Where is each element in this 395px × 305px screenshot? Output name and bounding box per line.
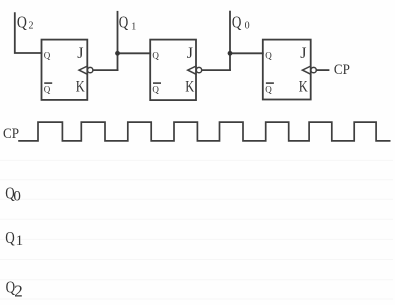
- svg-text:CP: CP: [334, 62, 350, 78]
- svg-text:1: 1: [16, 233, 24, 249]
- node label Q2 (top): [17, 12, 34, 31]
- U2 pin Q-bar overbar: [153, 82, 161, 84]
- wire: Q2 net from label down to U1 Q output: [15, 13, 42, 53]
- junction node on Q0 net: [228, 51, 233, 56]
- svg-text:Q: Q: [17, 12, 27, 31]
- svg-text:Q: Q: [44, 84, 51, 94]
- svg-text:2: 2: [14, 281, 23, 300]
- wire: Q0 junction to U3 Q output: [230, 52, 263, 54]
- U3 pin Q-bar overbar: [266, 82, 274, 84]
- svg-text:CP: CP: [3, 126, 19, 142]
- U2 clock inversion bubble: [196, 67, 201, 72]
- U3 clock dynamic-edge triangle: [302, 66, 310, 74]
- svg-text:Q: Q: [265, 84, 272, 94]
- wire: CP input stub to U3 clock: [316, 69, 328, 71]
- svg-text:K: K: [76, 79, 85, 96]
- wire: Q0 net vertical from label: [229, 12, 231, 71]
- JK flip-flop U3 body: [263, 40, 311, 100]
- U2 clock dynamic-edge triangle: [188, 66, 196, 74]
- svg-text:Q: Q: [232, 12, 242, 31]
- wire: Q1 junction to U2 Q output: [118, 52, 151, 54]
- svg-text:Q: Q: [152, 84, 159, 94]
- svg-text:Q: Q: [5, 228, 15, 247]
- node label Q0 (top): [232, 12, 250, 31]
- svg-text:Q: Q: [119, 12, 129, 31]
- wire: Q1 net to U1 clock input: [93, 69, 118, 71]
- svg-text:2: 2: [29, 21, 34, 32]
- svg-text:Q: Q: [152, 50, 159, 60]
- svg-text:J: J: [300, 45, 306, 62]
- U1 pin Q-bar overbar: [44, 82, 52, 84]
- signal row label Q2: [6, 277, 23, 300]
- node label Q1 (top): [119, 12, 137, 32]
- svg-text:0: 0: [245, 21, 250, 32]
- JK flip-flop U1 body: [42, 40, 88, 100]
- svg-text:K: K: [299, 79, 308, 96]
- U1 clock inversion bubble: [88, 67, 93, 72]
- U1 clock dynamic-edge triangle: [79, 66, 87, 74]
- svg-text:J: J: [77, 45, 83, 62]
- signal row label Q0: [5, 184, 21, 205]
- svg-text:J: J: [187, 45, 193, 62]
- wire: Q0 net to U2 clock input: [202, 69, 230, 71]
- svg-text:Q: Q: [44, 50, 51, 60]
- signal row label Q1: [5, 228, 23, 249]
- U3 clock inversion bubble: [311, 67, 316, 72]
- JK flip-flop U2 body: [150, 40, 196, 101]
- svg-text:1: 1: [131, 21, 136, 32]
- CP clock waveform: [18, 122, 390, 141]
- junction node on Q1 net: [115, 51, 120, 56]
- svg-text:0: 0: [13, 188, 21, 204]
- svg-text:Q: Q: [265, 50, 272, 60]
- svg-text:K: K: [185, 79, 194, 96]
- wire: Q1 net vertical from label: [117, 12, 119, 70]
